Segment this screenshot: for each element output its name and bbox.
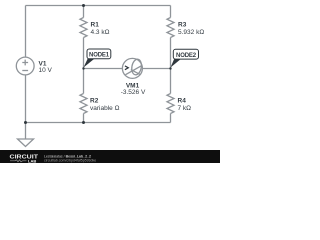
wire R1 branch top	[83, 6, 85, 18]
svg-text:circuitlab.com/c/bpd4faf5p593d: circuitlab.com/c/bpd4faf5p593dke	[44, 159, 96, 163]
wire R2 to bottom	[83, 114, 85, 123]
svg-text:5.932 kΩ: 5.932 kΩ	[178, 29, 204, 36]
resistor R3	[167, 18, 174, 38]
node NODE2 flag	[171, 49, 199, 67]
voltage source V1	[16, 57, 34, 75]
node NODE1 flag	[84, 49, 111, 68]
ground	[25, 123, 27, 140]
voltmeter arrow	[125, 66, 128, 70]
wire left rail lower	[25, 75, 27, 123]
wire R3 to NODE2	[170, 38, 172, 69]
wire top rail	[26, 5, 171, 7]
svg-text:R1: R1	[91, 22, 100, 29]
wire NODE2 to R4	[170, 69, 172, 94]
voltmeter VM1 body	[122, 58, 142, 78]
svg-text:R4: R4	[178, 98, 187, 105]
resistor R4	[167, 94, 174, 114]
voltmeter dial arc	[131, 70, 140, 75]
footer bar	[0, 150, 220, 163]
svg-text:variable Ω: variable Ω	[90, 105, 120, 112]
footer logo wire squiggle	[10, 160, 27, 162]
svg-text:R3: R3	[178, 22, 187, 29]
voltmeter needle	[126, 66, 142, 75]
voltmeter dial ellipse	[131, 58, 143, 75]
wire voltmeter to NODE2	[142, 68, 170, 70]
resistor R2	[80, 94, 87, 114]
junction dot bottom left	[24, 121, 27, 124]
svg-text:-3.526 V: -3.526 V	[121, 89, 146, 96]
svg-text:NODE1: NODE1	[89, 53, 110, 59]
svg-text:LAB: LAB	[28, 158, 36, 163]
wire R1 to NODE1	[83, 38, 85, 69]
svg-text:4.3 kΩ: 4.3 kΩ	[91, 29, 110, 36]
wire NODE1 to R2	[83, 69, 85, 94]
wire bottom rail	[26, 122, 171, 124]
junction dot NODE2	[169, 67, 171, 69]
resistor R1	[80, 18, 87, 38]
junction dot NODE1	[82, 67, 84, 69]
wire left rail upper	[25, 6, 27, 58]
junction dot top	[82, 4, 85, 7]
wire NODE1 to voltmeter	[84, 68, 123, 70]
wire R4 to bottom	[170, 114, 172, 123]
svg-text:7 kΩ: 7 kΩ	[178, 105, 192, 112]
junction dot bottom R2	[82, 121, 85, 124]
svg-text:NODE2: NODE2	[176, 53, 197, 59]
svg-text:10 V: 10 V	[39, 67, 53, 74]
svg-text:R2: R2	[90, 98, 99, 105]
wire R3 branch top	[170, 6, 172, 18]
